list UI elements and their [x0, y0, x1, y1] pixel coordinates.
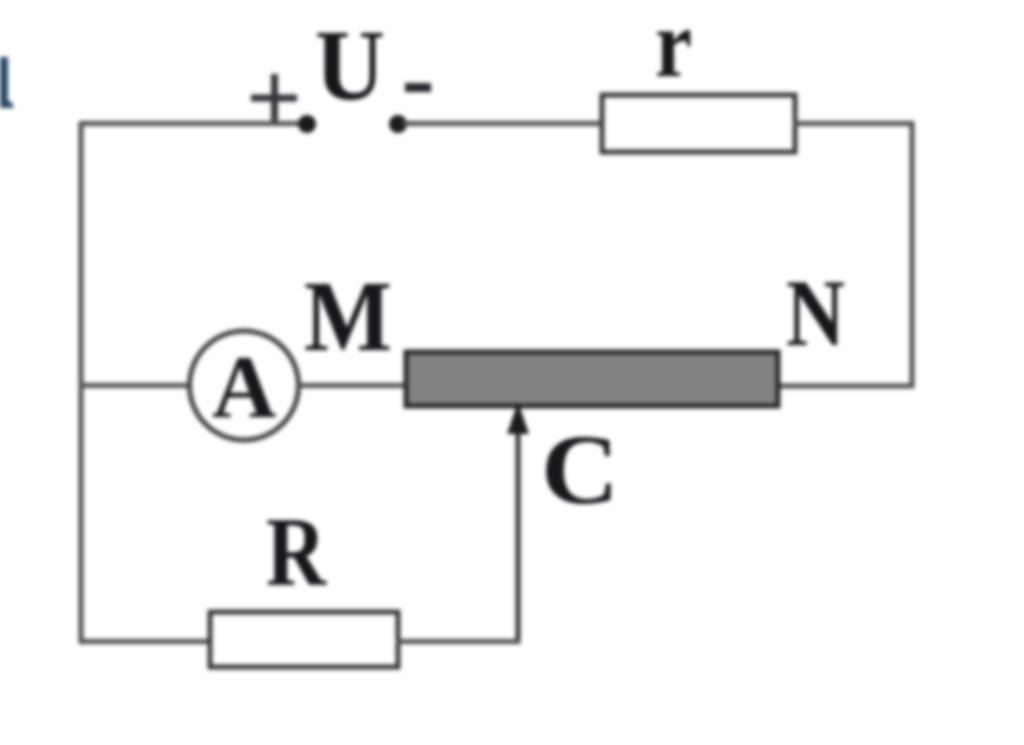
- terminal dot (-) of source U: [389, 115, 407, 133]
- resistor r: [602, 95, 795, 152]
- ammeter A: [190, 331, 299, 440]
- svg-text:r: r: [655, 0, 692, 97]
- svg-text:U: U: [315, 9, 385, 121]
- wire: bottom, left corner to resistor R: [79, 639, 213, 644]
- wire: right vertical side: [910, 121, 915, 388]
- svg-text:C: C: [541, 414, 619, 525]
- svg-text:A: A: [212, 339, 276, 437]
- wire: bottom, resistor R to slider corner: [396, 639, 521, 644]
- wire: rheostat N end to right side: [777, 384, 915, 389]
- wire: left vertical side: [79, 121, 84, 644]
- slider arrow C (wiper): [507, 402, 529, 644]
- wire: top, - terminal to resistor r: [403, 121, 604, 126]
- terminal dot (+) of source U: [298, 115, 316, 133]
- plus sign of source U: [251, 74, 297, 121]
- wire: middle row, left side to ammeter: [79, 383, 193, 388]
- wire: top, resistor r to top-right corner: [793, 121, 915, 126]
- svg-text:N: N: [786, 260, 845, 366]
- partial letter at left image edge: [0, 57, 13, 108]
- wire: top, left corner to + terminal: [79, 121, 304, 126]
- svg-text:M: M: [304, 260, 392, 372]
- rheostat MN body: [406, 352, 778, 406]
- resistor R: [210, 612, 398, 667]
- svg-text:R: R: [266, 498, 327, 607]
- wire: ammeter to rheostat M end: [297, 383, 408, 388]
- minus sign of source U: [405, 83, 431, 92]
